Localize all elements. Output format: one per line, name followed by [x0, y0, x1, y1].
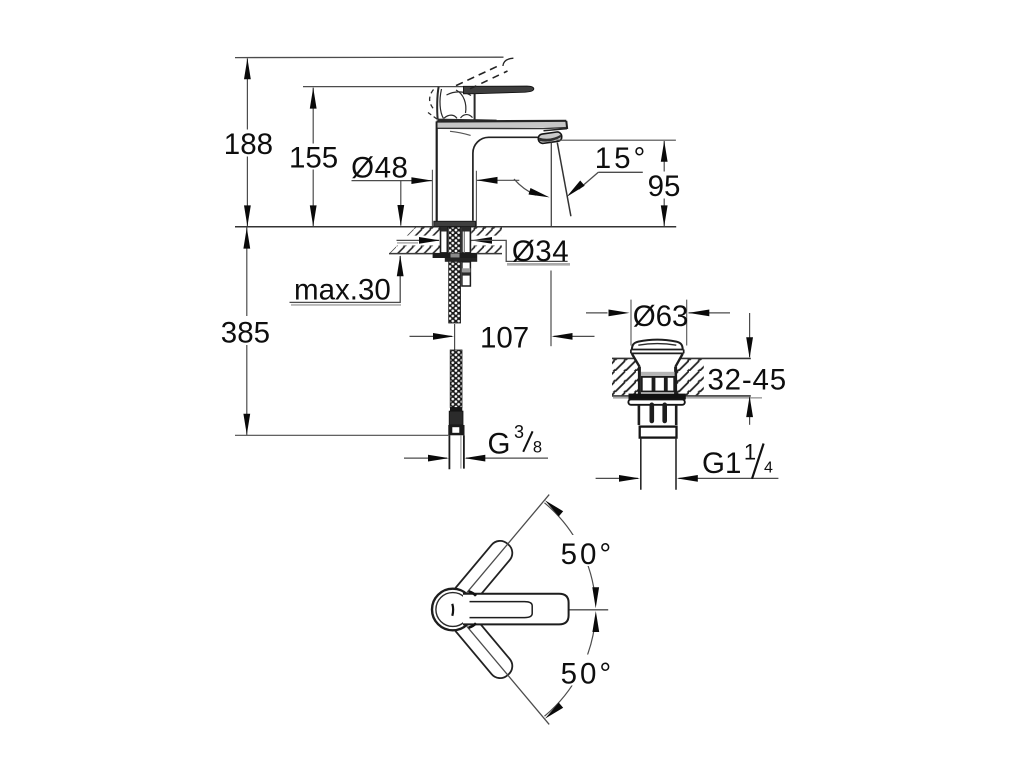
svg-text:155: 155	[289, 142, 338, 175]
spout underside and inner corner	[473, 137, 540, 221]
faucet body left edge	[436, 121, 438, 221]
diameter 48 extension lines	[432, 170, 476, 226]
deck hatch right of faucet	[471, 227, 502, 254]
threaded shank braid upper	[449, 227, 461, 323]
385 bottom extension line	[235, 434, 448, 436]
svg-text:15°: 15°	[595, 142, 649, 175]
drain cap	[631, 340, 684, 354]
svg-text:50°: 50°	[561, 657, 615, 690]
top view: lever rotated up 50 degrees	[449, 536, 517, 611]
supply tube left below deck	[441, 227, 448, 253]
top view: horizontal reference line	[567, 609, 608, 611]
drain washer flange	[628, 399, 684, 404]
drain locking ring under deck	[629, 394, 686, 400]
dimension 107	[410, 321, 595, 354]
label diameter 48 with leader	[351, 151, 519, 226]
top extent extension line	[235, 56, 504, 58]
dimension 385	[219, 227, 273, 435]
drain collar	[640, 427, 677, 438]
faucet base	[434, 221, 476, 226]
svg-text:50°: 50°	[561, 538, 615, 571]
deck bottom lines	[389, 253, 502, 255]
svg-text:4: 4	[764, 459, 773, 476]
drain body in deck	[632, 354, 683, 396]
spout accent arc	[450, 131, 471, 135]
dimension 188	[222, 58, 274, 226]
label diameter 34 with leader	[397, 235, 571, 268]
svg-text:G: G	[488, 427, 511, 460]
label max.30 with leader	[290, 255, 404, 306]
top view: 50 degree swing arcs	[543, 498, 599, 722]
flexible hose braid lower	[450, 350, 462, 408]
top view: junction blobs	[469, 591, 477, 628]
dimension 32-45	[707, 313, 786, 425]
drain tailpipe	[641, 438, 676, 490]
svg-text:95: 95	[648, 170, 681, 203]
top view: diagonal extension lines	[467, 495, 549, 593]
svg-text:188: 188	[224, 128, 273, 161]
top view: lever horizontal	[463, 594, 569, 625]
labels 50 degrees	[558, 535, 617, 690]
top view: body circle	[432, 589, 474, 631]
deck surface line	[235, 226, 676, 228]
hose connection nipple	[462, 262, 471, 286]
handle lever solid	[464, 86, 534, 94]
svg-text:107: 107	[480, 321, 529, 354]
label G3/8	[488, 422, 543, 460]
svg-text:Ø48: Ø48	[351, 151, 408, 184]
svg-text:Ø34: Ø34	[512, 235, 569, 268]
hose end fitting	[450, 408, 462, 412]
G3/8 width arrows	[404, 455, 548, 462]
svg-text:G1: G1	[702, 447, 741, 480]
label G1 1/4 with arrows	[596, 439, 779, 481]
drain deck lines	[612, 357, 751, 359]
aerator outlet	[544, 129, 568, 131]
drain deck hatch	[612, 359, 704, 396]
svg-text:8: 8	[533, 439, 542, 457]
centerline below deck	[550, 271, 552, 347]
top view: center tick	[451, 604, 454, 616]
mounting nut	[433, 253, 478, 258]
faucet cartridge cap top edge	[475, 119, 497, 122]
faucet spout top band	[438, 122, 567, 128]
drain slotted neck	[639, 405, 676, 425]
dimension 95	[557, 140, 683, 226]
svg-text:max.30: max.30	[294, 273, 391, 306]
label 15 degrees with leader	[514, 142, 648, 201]
deck hatch left of faucet	[389, 227, 440, 254]
G3/8 tube	[449, 435, 464, 469]
svg-text:32-45: 32-45	[707, 364, 786, 397]
supply tube right below deck	[462, 227, 471, 253]
svg-text:3: 3	[514, 422, 524, 442]
water stream 15 degree line	[557, 143, 571, 217]
svg-text:1: 1	[744, 439, 756, 464]
top view: lever rotated down 50 degrees	[449, 608, 517, 683]
hose centerline gap segment	[454, 324, 456, 351]
water stream vertical reference line	[550, 143, 552, 227]
dimension 155	[287, 87, 464, 227]
drain valve body through deck (white mask)	[631, 353, 685, 396]
svg-text:385: 385	[221, 317, 270, 350]
svg-text:Ø63: Ø63	[633, 300, 689, 333]
handle pivot body	[428, 87, 475, 122]
white channel through hatch for leader	[388, 236, 441, 246]
drain: dimension diameter 63	[586, 300, 730, 346]
raised handle dashed outline	[456, 58, 513, 89]
